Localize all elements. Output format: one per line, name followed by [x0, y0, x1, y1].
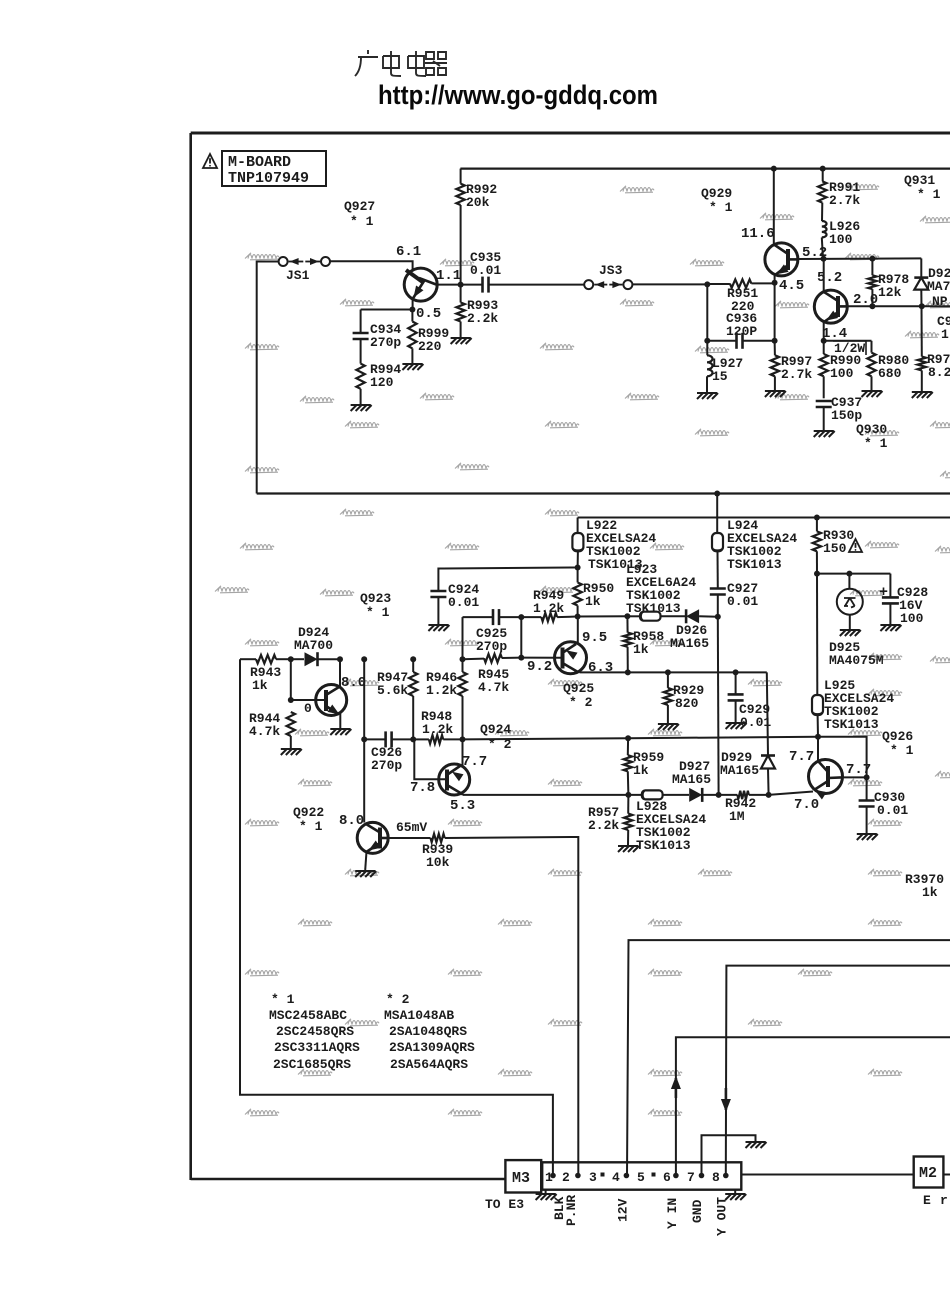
svg-text:100: 100 — [830, 366, 854, 381]
svg-text:Q923: Q923 — [360, 591, 391, 606]
inductor L927 — [706, 341, 708, 356]
wire x364 column — [363, 659, 365, 822]
wire M2 to edge — [943, 1174, 950, 1176]
wire Q930 emitter node 1.4 — [823, 321, 825, 340]
svg-text:6.3: 6.3 — [588, 660, 613, 676]
delay line L923 row — [463, 616, 493, 618]
capacitor C929 — [735, 672, 737, 693]
warning triangle — [203, 154, 217, 168]
wire Q927 collector node — [437, 284, 482, 286]
resistor R997 — [774, 283, 776, 341]
diode D927 — [689, 788, 702, 802]
bus 12V mid horizontal — [257, 492, 950, 494]
ground under connector right — [734, 1190, 736, 1193]
diode D929 — [767, 672, 768, 755]
capacitor C936 — [707, 340, 736, 342]
svg-text:1M: 1M — [729, 809, 745, 824]
ground under R993 — [451, 338, 472, 344]
svg-text:TO E3: TO E3 — [485, 1197, 524, 1212]
svg-text:1.1: 1.1 — [436, 268, 461, 284]
arrow down on pin8 wire — [725, 1088, 728, 1110]
svg-text:1k: 1k — [585, 594, 601, 609]
wire connector to M2 — [741, 1174, 913, 1176]
transistor Q925 — [555, 642, 587, 674]
svg-text:9.2: 9.2 — [527, 659, 552, 675]
wire JS1 to frame-left routing — [257, 262, 279, 494]
transistor Q930 — [814, 290, 847, 323]
wire Q922 emitter ground — [365, 852, 366, 871]
svg-text:0.01: 0.01 — [877, 803, 908, 818]
svg-text:2SC1685QRS: 2SC1685QRS — [273, 1057, 351, 1072]
svg-text:8.2: 8.2 — [928, 365, 950, 380]
wire Q929 base node 5.2 row — [798, 257, 921, 260]
ground under C929 — [726, 723, 747, 729]
svg-text:7.0: 7.0 — [794, 797, 819, 813]
resistor R929 — [667, 672, 669, 688]
svg-text:M2: M2 — [919, 1165, 937, 1182]
wire Q926 base top — [817, 737, 819, 761]
svg-text:7.7: 7.7 — [789, 749, 814, 765]
ground under C924 — [428, 625, 449, 631]
svg-text:Q925: Q925 — [563, 681, 594, 696]
svg-text:TNP107949: TNP107949 — [228, 170, 309, 187]
warning triangle at R930 — [849, 539, 862, 552]
resistor R949 — [541, 613, 557, 621]
svg-text:P.NR: P.NR — [564, 1195, 579, 1226]
svg-text:* 2: * 2 — [569, 695, 593, 710]
svg-text:15: 15 — [712, 369, 728, 384]
capacitor C924 — [438, 568, 577, 592]
svg-text:7.7: 7.7 — [846, 762, 871, 778]
ground under R979 — [912, 392, 933, 398]
svg-text:2: 2 — [562, 1170, 570, 1185]
wire R950 node to L923 — [578, 615, 628, 617]
svg-text:MA165: MA165 — [720, 763, 759, 778]
svg-text:TSK1013: TSK1013 — [727, 557, 782, 572]
svg-text:65mV: 65mV — [396, 820, 427, 835]
svg-text:* 1: * 1 — [271, 992, 295, 1007]
delay line L923 — [640, 612, 661, 621]
capacitor C928 electrolytic — [889, 574, 891, 598]
wire R948 row to mid row — [463, 738, 629, 739]
svg-text:0.01: 0.01 — [448, 595, 479, 610]
svg-text:2.2k: 2.2k — [588, 818, 619, 833]
ground under Q922 — [355, 871, 376, 877]
svg-text:MA165: MA165 — [672, 772, 711, 787]
svg-text:0: 0 — [304, 701, 312, 716]
resistor R993 — [460, 285, 462, 303]
svg-text:4.7k: 4.7k — [249, 724, 280, 739]
svg-text:* 1: * 1 — [366, 605, 390, 620]
resistor R979 — [921, 306, 923, 356]
wire D925 C928 row — [817, 573, 890, 575]
ground under R999 — [402, 364, 423, 370]
wire Y OUT to pin8 — [726, 966, 950, 1176]
svg-text:12k: 12k — [878, 285, 902, 300]
svg-text:270p: 270p — [371, 758, 402, 773]
resistor R950 — [577, 568, 579, 583]
svg-text:* 1: * 1 — [917, 187, 941, 202]
svg-text:10k: 10k — [426, 855, 450, 870]
resistor R959 — [627, 738, 629, 755]
inductor L925 — [816, 574, 818, 695]
ground under C928 — [880, 625, 901, 631]
svg-text:MA700: MA700 — [294, 638, 333, 653]
capacitor C930 — [866, 777, 868, 800]
svg-text:5.6k: 5.6k — [377, 683, 408, 698]
svg-text:2SA564AQRS: 2SA564AQRS — [390, 1057, 468, 1072]
wire Q924 top — [462, 739, 464, 766]
wire Q924 collector to L928 row — [460, 793, 464, 795]
wire Q929 emitter to node 4.5 — [774, 276, 776, 283]
svg-text:20k: 20k — [466, 195, 490, 210]
svg-text:8.0: 8.0 — [339, 813, 364, 829]
ground under C930 — [857, 834, 878, 840]
svg-text:1: 1 — [941, 327, 949, 342]
resistor R980 — [871, 341, 873, 353]
transistor Q927 — [404, 268, 437, 301]
top supply bus — [460, 168, 950, 170]
ground at pin7 wire — [746, 1142, 767, 1148]
resistor R942 — [719, 794, 738, 796]
resistor R958 — [626, 616, 628, 632]
wire Q926 collector right — [842, 776, 867, 778]
wire BLK routing from R943 row — [240, 659, 553, 1175]
resistor R990 — [823, 341, 825, 354]
arrow up on pin6 wire — [675, 1078, 678, 1098]
resistor R992 — [460, 169, 462, 184]
svg-text:Y OUT: Y OUT — [715, 1197, 730, 1236]
wire L928 row — [463, 794, 642, 796]
svg-text:12V: 12V — [616, 1198, 631, 1222]
ground under R957 — [618, 846, 639, 852]
svg-text:5.3: 5.3 — [450, 798, 475, 814]
transistor Q922 — [357, 822, 388, 853]
svg-text:MA165: MA165 — [670, 636, 709, 651]
svg-text:7.7: 7.7 — [462, 754, 487, 770]
wire JS3 node down to C936 row — [706, 284, 708, 340]
wire pin7 ground — [702, 1135, 756, 1175]
svg-text:Q931: Q931 — [904, 173, 935, 188]
svg-text:1.2k: 1.2k — [533, 601, 564, 616]
svg-text:JS3: JS3 — [599, 263, 623, 278]
resistor R947 — [412, 659, 414, 672]
svg-text:680: 680 — [878, 366, 902, 381]
svg-text:TSK1013: TSK1013 — [636, 838, 691, 853]
svg-text:Q929: Q929 — [701, 186, 732, 201]
wire 12V to pin4 — [627, 940, 950, 1175]
svg-text:2SA1309AQRS: 2SA1309AQRS — [389, 1040, 475, 1055]
wire Q930 base row — [848, 305, 950, 307]
svg-text:11.6: 11.6 — [741, 226, 775, 242]
wire mid row to Q926 — [628, 737, 867, 778]
jumper JS1 — [279, 257, 288, 266]
svg-text:5: 5 — [637, 1170, 645, 1185]
resistor R944 — [287, 712, 295, 736]
svg-text:r: r — [940, 1193, 948, 1208]
connector M2 box — [914, 1157, 944, 1188]
svg-text:GND: GND — [690, 1199, 705, 1223]
svg-text:MSA1048AB: MSA1048AB — [384, 1008, 454, 1023]
svg-text:* 1: * 1 — [350, 214, 374, 229]
resistor R945 — [463, 658, 485, 661]
resistor R943 — [240, 658, 256, 660]
svg-text:E: E — [923, 1193, 931, 1208]
svg-text:1k: 1k — [252, 678, 268, 693]
svg-text:* 2: * 2 — [386, 992, 410, 1007]
wire C925 node to Q925 base — [520, 617, 522, 658]
pin junction dots — [550, 1173, 556, 1179]
svg-text:Q926: Q926 — [882, 729, 913, 744]
ground under D925 — [840, 630, 861, 636]
ground under R944 — [281, 749, 302, 755]
capacitor C927 — [710, 587, 726, 590]
svg-text:Q927: Q927 — [344, 199, 375, 214]
resistor R957 — [627, 795, 629, 814]
svg-text:* 2: * 2 — [488, 737, 512, 752]
resistor R951 — [707, 283, 730, 285]
capacitor C937 — [816, 400, 832, 403]
transistor Q926 — [809, 760, 843, 794]
svg-text:Y IN: Y IN — [665, 1198, 680, 1229]
svg-text:* 1: * 1 — [864, 436, 888, 451]
svg-text:* 1: * 1 — [709, 200, 733, 215]
inductor L926 — [822, 221, 827, 237]
svg-text:220: 220 — [418, 339, 442, 354]
inductor L924 — [716, 494, 718, 534]
wire to Q926 emitter — [769, 792, 813, 795]
svg-text:5.2: 5.2 — [817, 270, 842, 286]
capacitor C925 — [492, 609, 495, 625]
svg-text:100: 100 — [829, 232, 853, 247]
svg-text:100: 100 — [900, 611, 924, 626]
svg-text:7: 7 — [687, 1170, 695, 1185]
svg-text:Q930: Q930 — [856, 422, 887, 437]
connector M3 box — [505, 1160, 541, 1192]
svg-text:3: 3 — [589, 1170, 597, 1185]
svg-text:150p: 150p — [831, 408, 862, 423]
svg-text:0.01: 0.01 — [470, 263, 501, 278]
resistor R939 row to pin2 — [388, 837, 431, 839]
svg-text:0.01: 0.01 — [727, 594, 758, 609]
transistor Q929 — [765, 243, 798, 276]
wire Q924 base corner — [414, 739, 445, 779]
ground under L927 — [697, 393, 718, 399]
ground under connector left — [545, 1190, 547, 1193]
svg-text:1k: 1k — [633, 763, 649, 778]
svg-text:2.7k: 2.7k — [829, 193, 860, 208]
svg-text:MA7: MA7 — [927, 279, 950, 294]
connector pin strip — [542, 1162, 741, 1189]
svg-text:* 1: * 1 — [890, 743, 914, 758]
svg-text:4.7k: 4.7k — [478, 680, 509, 695]
svg-text:4: 4 — [612, 1170, 620, 1185]
svg-text:8: 8 — [712, 1170, 720, 1185]
resistor R991 — [820, 166, 826, 172]
wire Y IN to pin6 — [676, 1037, 950, 1175]
resistor R946 — [462, 659, 464, 672]
svg-text:MA4075M: MA4075M — [829, 653, 884, 668]
resistor R994 — [356, 364, 364, 389]
bus second horizontal — [578, 517, 950, 519]
diode D926 — [686, 609, 699, 623]
ground under R997 — [765, 391, 786, 397]
svg-text:1.2k: 1.2k — [422, 722, 453, 737]
svg-text:6: 6 — [663, 1170, 671, 1185]
vertical C927 node down — [717, 617, 720, 795]
svg-text:270p: 270p — [370, 335, 401, 350]
resistor R930 — [816, 518, 818, 532]
svg-text:1k: 1k — [633, 642, 649, 657]
capacitor C934 — [360, 310, 362, 334]
svg-text:2SC3311AQRS: 2SC3311AQRS — [274, 1040, 360, 1055]
wire 6.3 row — [580, 671, 767, 673]
svg-text:2SC2458QRS: 2SC2458QRS — [276, 1024, 354, 1039]
wire Q929 collector to bus — [773, 169, 775, 244]
capacitor C926 — [364, 738, 385, 740]
svg-text:1k: 1k — [922, 885, 938, 900]
svg-text:120P: 120P — [726, 324, 757, 339]
ground under C937 — [814, 431, 835, 437]
inductor L922 — [577, 518, 579, 534]
svg-text:MSC2458ABC: MSC2458ABC — [269, 1008, 347, 1023]
svg-text:2.7k: 2.7k — [781, 367, 812, 382]
wire Q927 emitter node — [412, 300, 414, 310]
svg-text:M-BOARD: M-BOARD — [228, 154, 291, 171]
wire C935 to JS3 — [489, 284, 585, 286]
ground under R980 — [862, 391, 883, 397]
svg-text:+: + — [879, 584, 888, 601]
M-BOARD label box — [222, 151, 326, 186]
svg-text:9.5: 9.5 — [582, 630, 607, 646]
svg-text:120: 120 — [370, 375, 394, 390]
wire Q923 emitter to ground — [339, 714, 341, 729]
svg-text:M3: M3 — [512, 1170, 530, 1187]
svg-text:TSK1013: TSK1013 — [626, 601, 681, 616]
svg-text:2SA1048QRS: 2SA1048QRS — [389, 1024, 467, 1039]
wire Q925 emitter up — [577, 617, 579, 644]
wire Q923 collector — [339, 659, 341, 687]
schematic border frame — [191, 132, 950, 135]
delay line L928 — [642, 790, 663, 799]
wire JS3 to R951 node — [632, 283, 707, 285]
svg-text:2.2k: 2.2k — [467, 311, 498, 326]
svg-text:150: 150 — [823, 541, 847, 556]
diode D928 — [920, 258, 922, 277]
ground under R929 — [658, 724, 679, 730]
svg-text:TSK1013: TSK1013 — [824, 717, 879, 732]
zener diode D925 circled — [848, 574, 850, 589]
svg-text:NP: NP — [932, 294, 948, 309]
svg-text:* 1: * 1 — [299, 819, 323, 834]
svg-text:JS1: JS1 — [286, 268, 310, 283]
svg-text:http://www.go-gddq.com: http://www.go-gddq.com — [378, 80, 658, 110]
svg-text:Q922: Q922 — [293, 805, 324, 820]
svg-text:7.8: 7.8 — [410, 780, 435, 796]
svg-text:270p: 270p — [476, 639, 507, 654]
svg-text:4.5: 4.5 — [779, 278, 804, 294]
svg-text:0.5: 0.5 — [416, 306, 441, 322]
svg-text:8.0: 8.0 — [341, 675, 366, 691]
ground under R994 — [351, 405, 372, 411]
wire Q925 collector to 6.3 row — [577, 671, 580, 672]
ground under Q923 — [330, 729, 351, 735]
resistor R948 — [413, 738, 429, 740]
svg-text:820: 820 — [675, 696, 699, 711]
wire Q930 collector — [823, 259, 825, 293]
wire JS1 to Q927 base — [330, 261, 413, 269]
capacitor C935 — [481, 277, 484, 293]
diode D924 — [291, 658, 304, 660]
svg-text:Q924: Q924 — [480, 722, 511, 737]
transistor Q924 — [439, 764, 470, 795]
vertical C925 to R945 node — [462, 617, 464, 659]
transistor Q923 — [316, 685, 347, 716]
resistor R999 — [411, 310, 413, 322]
jumper JS3 — [584, 280, 593, 289]
svg-text:1.2k: 1.2k — [426, 683, 457, 698]
header Chinese logo text 广电电器 — [355, 50, 447, 76]
svg-text:6.1: 6.1 — [396, 244, 421, 260]
resistor R978 — [871, 259, 873, 276]
wire R944 base branch — [290, 659, 292, 700]
